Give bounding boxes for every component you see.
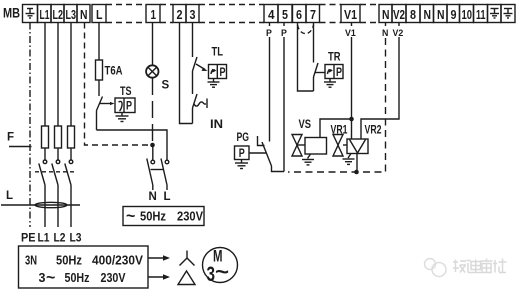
wire L3 xyxy=(70,23,72,127)
svg-text:L: L xyxy=(96,7,103,22)
svg-text:T6A: T6A xyxy=(105,66,123,78)
svg-text:L2: L2 xyxy=(53,7,64,22)
wire L xyxy=(98,23,100,61)
fuse F2 xyxy=(55,126,62,148)
terminal N2 xyxy=(379,5,392,23)
svg-text:PE: PE xyxy=(21,233,36,245)
svg-text:L: L xyxy=(164,191,171,203)
star symbol xyxy=(180,251,195,266)
svg-text:50Hz: 50Hz xyxy=(56,254,82,268)
supply box 230V xyxy=(123,207,204,226)
svg-text:230V: 230V xyxy=(177,210,204,224)
node N bottom xyxy=(354,170,359,175)
svg-text:N: N xyxy=(437,7,445,22)
svg-text:3: 3 xyxy=(207,263,216,286)
svg-text:V1: V1 xyxy=(344,7,357,22)
svg-text:F: F xyxy=(7,132,14,144)
svg-text:400/230V: 400/230V xyxy=(92,254,144,268)
contact TR xyxy=(314,23,319,92)
svg-text:P: P xyxy=(220,67,226,79)
terminal earth B xyxy=(501,5,515,23)
svg-text:TS: TS xyxy=(120,86,132,98)
svg-text:2: 2 xyxy=(177,7,183,22)
power switch linkage xyxy=(151,169,165,171)
svg-text:4: 4 xyxy=(268,7,275,22)
motor text xyxy=(207,247,230,287)
wire N dashed xyxy=(85,23,151,146)
TS action arrow xyxy=(100,102,115,105)
terminal 5 xyxy=(278,5,292,23)
ground TR xyxy=(324,79,336,88)
terminal earth A xyxy=(488,5,502,23)
wire 5 xyxy=(283,23,285,27)
svg-text:~: ~ xyxy=(215,261,229,284)
fuse F3 xyxy=(68,126,75,148)
svg-text:P: P xyxy=(126,101,132,113)
svg-text:50Hz: 50Hz xyxy=(65,271,90,285)
arrow star feed xyxy=(148,255,170,260)
main switch pole 2 xyxy=(52,148,60,227)
wire N2 dashed xyxy=(385,23,387,27)
ground VR2 xyxy=(343,154,355,165)
power switch N pole xyxy=(147,145,155,190)
wire V2 xyxy=(398,23,400,27)
wire lamp to node dashed xyxy=(152,78,154,143)
watermark pseudo-glyphs xyxy=(453,259,507,273)
terminal N3 xyxy=(420,5,434,23)
motor M xyxy=(203,248,238,283)
arrow delta feed xyxy=(148,274,170,279)
svg-text:P: P xyxy=(266,28,272,38)
ground VS xyxy=(302,154,314,165)
svg-text:TR: TR xyxy=(328,52,341,64)
svg-text:P: P xyxy=(239,148,245,160)
contact PG xyxy=(258,136,285,172)
svg-text:7: 7 xyxy=(310,7,316,22)
node junction xyxy=(150,143,155,148)
svg-text:V2: V2 xyxy=(393,7,405,22)
svg-text:N: N xyxy=(80,7,88,22)
wire L1 xyxy=(44,23,46,127)
terminal 9 xyxy=(447,5,460,23)
svg-text:N: N xyxy=(424,7,432,22)
terminal L xyxy=(92,5,106,23)
terminal 4 xyxy=(264,5,278,23)
PG action line xyxy=(249,152,266,154)
terminal 10 xyxy=(460,5,474,23)
svg-text:~: ~ xyxy=(126,208,135,225)
svg-text:VR2: VR2 xyxy=(365,125,382,137)
svg-text:8: 8 xyxy=(410,7,416,22)
main switch pole 1 xyxy=(39,148,47,227)
svg-text:50Hz: 50Hz xyxy=(140,210,166,224)
terminal 8 xyxy=(406,5,420,23)
wire 6 xyxy=(298,23,314,92)
TL action line xyxy=(196,64,208,71)
jumper 6-7 dashed arc xyxy=(298,25,314,34)
IN reset symbol xyxy=(194,99,207,109)
svg-text:TL: TL xyxy=(212,47,224,59)
thermostat TS box xyxy=(115,98,135,113)
svg-text:IN: IN xyxy=(210,119,223,131)
terminal 6 xyxy=(293,5,307,23)
earth symbol in PE terminal xyxy=(26,9,35,19)
svg-text:~: ~ xyxy=(46,270,55,287)
svg-text:N: N xyxy=(149,191,157,203)
label F with leader xyxy=(9,146,32,148)
svg-text:N: N xyxy=(382,7,390,22)
terminal L1 xyxy=(38,5,52,23)
svg-text:11: 11 xyxy=(476,7,486,22)
svg-text:L1: L1 xyxy=(40,7,50,22)
contact TS xyxy=(97,97,168,161)
terminal 7 xyxy=(306,5,320,23)
svg-text:10: 10 xyxy=(462,7,473,22)
contact TL xyxy=(193,23,198,95)
terminal L2 xyxy=(51,5,64,23)
actuator VS box xyxy=(305,138,327,155)
svg-text:L2: L2 xyxy=(54,233,66,245)
ground TS xyxy=(116,113,129,122)
actuator VR2 box xyxy=(347,139,368,154)
wire VS up xyxy=(320,119,350,138)
power info box xyxy=(19,246,149,288)
cable line xyxy=(1,204,80,206)
terminal V2 xyxy=(392,5,406,23)
svg-text:1: 1 xyxy=(151,7,157,22)
switch linkage dashed xyxy=(35,171,76,173)
fuse F1 xyxy=(42,126,49,148)
svg-text:S: S xyxy=(162,80,170,92)
ground TL xyxy=(208,79,220,88)
svg-text:P: P xyxy=(336,67,342,79)
svg-text:V2: V2 xyxy=(393,28,404,38)
svg-text:VR1: VR1 xyxy=(331,125,348,137)
terminal N xyxy=(77,5,90,23)
cable lens xyxy=(35,202,67,207)
terminal 11 xyxy=(474,5,488,23)
terminal PE (earth) xyxy=(23,5,38,23)
valve VS xyxy=(292,135,305,157)
watermark logo xyxy=(425,259,447,277)
main switch pole 3 xyxy=(65,148,73,227)
svg-text:3N: 3N xyxy=(25,254,37,268)
wire L2 xyxy=(57,23,59,127)
svg-text:PG: PG xyxy=(237,132,250,144)
wire 4 xyxy=(269,23,271,27)
wire VR2 bottom xyxy=(356,154,358,173)
svg-text:5: 5 xyxy=(282,7,288,22)
lamp S xyxy=(146,23,158,78)
terminal L3 xyxy=(64,5,77,23)
svg-text:6: 6 xyxy=(296,7,302,22)
terminal V1 xyxy=(341,5,360,23)
contact IN xyxy=(193,94,198,124)
power switch L pole xyxy=(161,159,169,191)
svg-text:L3: L3 xyxy=(70,233,82,245)
wire V1 xyxy=(351,23,353,27)
terminal 2 xyxy=(173,5,186,23)
earth symbol in terminal B xyxy=(504,9,513,19)
ground PG xyxy=(235,160,248,169)
svg-text:L1: L1 xyxy=(38,233,51,245)
svg-text:P: P xyxy=(281,28,287,38)
pressure switch PG box xyxy=(235,146,250,160)
earth symbol in terminal A xyxy=(490,9,499,19)
svg-text:230V: 230V xyxy=(101,271,127,285)
node VS/V1 xyxy=(349,117,354,122)
supply box text xyxy=(126,208,204,225)
svg-text:MB: MB xyxy=(3,6,20,21)
terminal 1 xyxy=(146,5,160,23)
info box text xyxy=(25,254,144,287)
terminal 3 xyxy=(186,5,199,23)
fuse T6A xyxy=(96,60,103,96)
terminal N4 xyxy=(434,5,448,23)
valve VR1 xyxy=(333,135,347,157)
svg-text:V1: V1 xyxy=(345,28,356,38)
terminal strip MB dashed band xyxy=(106,5,379,23)
svg-text:L: L xyxy=(6,190,13,202)
thermostat TR box xyxy=(325,65,343,79)
svg-text:VS: VS xyxy=(299,119,312,131)
delta symbol xyxy=(178,271,195,285)
svg-text:N: N xyxy=(382,28,388,38)
wire 2 xyxy=(180,23,193,124)
svg-text:9: 9 xyxy=(451,7,457,22)
thermostat TL box xyxy=(209,65,227,79)
svg-text:3: 3 xyxy=(39,271,46,285)
text labels xyxy=(3,6,20,21)
svg-text:L3: L3 xyxy=(66,7,77,22)
wire PE dash-dot xyxy=(29,23,31,228)
svg-text:3: 3 xyxy=(190,7,196,22)
TR action line xyxy=(316,72,325,74)
